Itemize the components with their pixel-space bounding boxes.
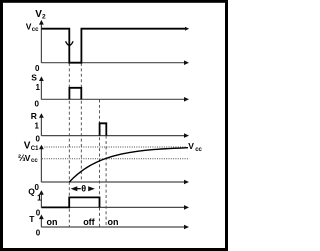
theta duration annotation [71, 186, 78, 191]
axis T row: horizontal [41, 226, 184, 228]
axis R row: vertical with up arrow [40, 117, 42, 136]
svg-text:0: 0 [35, 64, 40, 73]
capacitor voltage VC1 exponential charge curve [69, 148, 188, 182]
svg-text:T: T [29, 214, 35, 224]
svg-text:0: 0 [35, 99, 40, 108]
dotted 2/3 Vcc reference level (VC1 row) [42, 158, 189, 160]
svg-text:cc: cc [32, 27, 39, 33]
axis VC1 row: vertical with up arrow [40, 149, 42, 183]
svg-text:1: 1 [37, 193, 42, 202]
svg-text:S: S [31, 73, 37, 83]
trigger falling-edge chevron on V2 [66, 41, 74, 45]
svg-text:1: 1 [36, 83, 41, 92]
svg-text:V: V [24, 141, 31, 152]
dashed time marker t1 (x=69.3) [68, 63, 70, 227]
svg-text:cc: cc [195, 147, 202, 153]
svg-text:V: V [25, 153, 31, 163]
waveform S pulse [69, 88, 81, 100]
dashed time marker t2 (x=81.3) [80, 63, 82, 182]
border frame [2, 1, 227, 249]
axis V2 row: vertical with up arrow [40, 24, 42, 64]
waveform Q pulse [42, 197, 100, 207]
waveform R pulse [100, 123, 107, 135]
svg-text:C1: C1 [31, 146, 39, 152]
dotted Vcc reference level (VC1 row) [42, 146, 186, 148]
dashed time marker t3 (x=99.5) [99, 100, 101, 228]
axis S row: vertical with up arrow [40, 80, 42, 100]
svg-text:cc: cc [31, 158, 38, 164]
axis V2 row: horizontal [41, 62, 184, 64]
svg-text:0: 0 [36, 209, 41, 218]
svg-text:1: 1 [35, 122, 40, 131]
waveform V2 pulse [41, 29, 185, 63]
dashed time marker t4 (x=106) [105, 136, 107, 227]
svg-text:θ: θ [81, 183, 86, 193]
svg-text:Q: Q [28, 187, 35, 197]
svg-text:off: off [83, 217, 95, 227]
axis R row: horizontal [41, 135, 184, 137]
axis VC1 row: horizontal [41, 181, 184, 183]
small arrowhead end of V2 high line [185, 27, 189, 31]
axis S row: horizontal [41, 98, 184, 100]
svg-text:R: R [31, 111, 37, 121]
svg-text:0: 0 [36, 229, 41, 238]
axis Q row: vertical with up arrow [40, 194, 42, 207]
svg-text:on: on [108, 217, 119, 227]
svg-text:0: 0 [36, 135, 41, 144]
svg-text:2: 2 [42, 14, 46, 21]
svg-text:0: 0 [35, 183, 40, 192]
svg-text:V: V [188, 141, 194, 151]
svg-text:on: on [47, 217, 58, 227]
axis Q row: horizontal [41, 206, 184, 208]
axis T row: vertical with up arrow [40, 218, 42, 227]
